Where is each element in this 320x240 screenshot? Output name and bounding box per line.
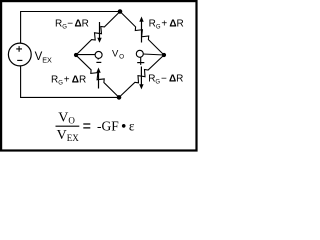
svg-text:VO: VO [112,48,124,60]
wire from VEX- to bridge bottom node [21,66,119,97]
svg-text:-GF•ε: -GF•ε [97,119,135,136]
svg-text:RG−ΔR: RG−ΔR [148,74,183,86]
node left (junction dot) [74,53,78,57]
svg-text:RG+ΔR: RG+ΔR [51,75,86,87]
voltage source VEX [8,43,31,66]
output terminal minus (open circle) [95,51,102,62]
svg-text:VO: VO [58,110,75,125]
strain gauge R2 (RG+dR, top-right arm) [120,12,164,56]
svg-text:VEX: VEX [35,51,52,64]
formula fraction bar [56,125,80,127]
svg-text:RG−ΔR: RG−ΔR [55,19,89,31]
wire right node to plus output terminal [143,54,164,55]
svg-text:RG+ΔR: RG+ΔR [149,19,184,31]
node bottom (junction dot) [117,95,122,100]
strain gauge R1 (RG-dR, top-left arm) [76,12,120,56]
output terminal plus (open circle) [136,50,144,65]
node right (junction dot) [162,53,166,57]
node top (junction dot) [118,9,123,14]
equals sign [83,124,90,128]
strain gauge R3 (RG+dR, bottom-left arm) [76,55,119,97]
strain gauge R4 (RG-dR, bottom-right arm) [119,55,164,97]
wire from VEX+ to bridge top node [21,12,120,44]
svg-text:VEX: VEX [57,128,80,143]
wire left node to minus output terminal [76,54,95,56]
